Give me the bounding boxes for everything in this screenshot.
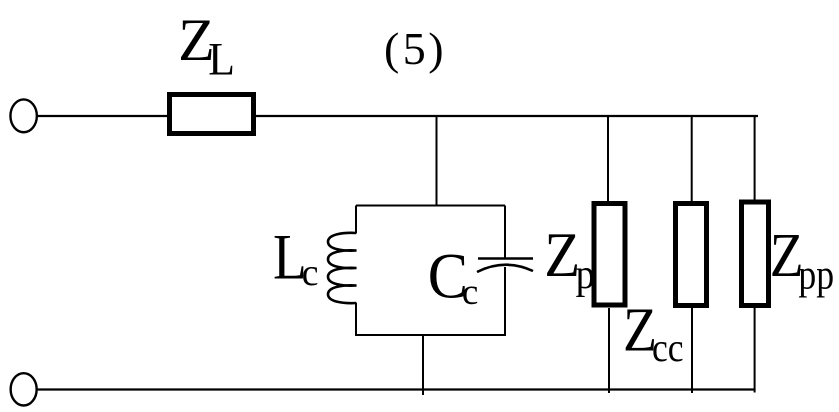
wire: box Z_pp to bottom rail	[754, 307, 756, 393]
svg-text:p: p	[576, 251, 595, 298]
wire: vertical from top rail to box Z_pp	[754, 116, 756, 203]
tank bottom wire	[356, 334, 505, 336]
wire: middle box to bottom rail	[691, 308, 693, 393]
svg-text:L: L	[208, 33, 235, 85]
wire: tank left upper segment	[355, 206, 357, 234]
bottom rail wire	[38, 388, 755, 390]
svg-text:c: c	[462, 272, 478, 313]
wire: Z_L box to right end (top rail)	[256, 115, 758, 117]
impedance box Z_pp	[742, 202, 769, 306]
wire: top rail down to tank top (node)	[436, 116, 438, 207]
wire: tank left lower segment	[355, 303, 357, 336]
tank top wire	[356, 205, 505, 207]
capacitor C_c top plate	[478, 257, 533, 260]
capacitor C_c curved plate	[477, 265, 533, 272]
svg-text:cc: cc	[652, 326, 684, 370]
svg-text:(5): (5)	[384, 23, 444, 74]
wire: tank bottom down to bottom rail	[422, 335, 424, 395]
inductor L_c (coil)	[328, 233, 357, 303]
input terminal (top left)	[10, 99, 36, 132]
wire: capacitor to tank bottom	[504, 267, 506, 336]
svg-text:pp: pp	[798, 252, 834, 298]
wire: box Z_p to bottom rail	[608, 308, 610, 393]
wire: tank right upper segment to capacitor	[504, 206, 506, 259]
impedance box Z_L	[170, 95, 254, 134]
wire: vertical from top rail to middle box	[691, 116, 693, 203]
wire: top-left terminal to Z_L box	[38, 115, 168, 117]
output terminal (bottom left)	[11, 373, 37, 405]
svg-text:c: c	[302, 252, 319, 294]
impedance box (middle, Z_cc)	[676, 204, 707, 306]
wire: vertical from top rail to box Z_p	[607, 116, 609, 203]
impedance box Z_p	[594, 204, 625, 306]
